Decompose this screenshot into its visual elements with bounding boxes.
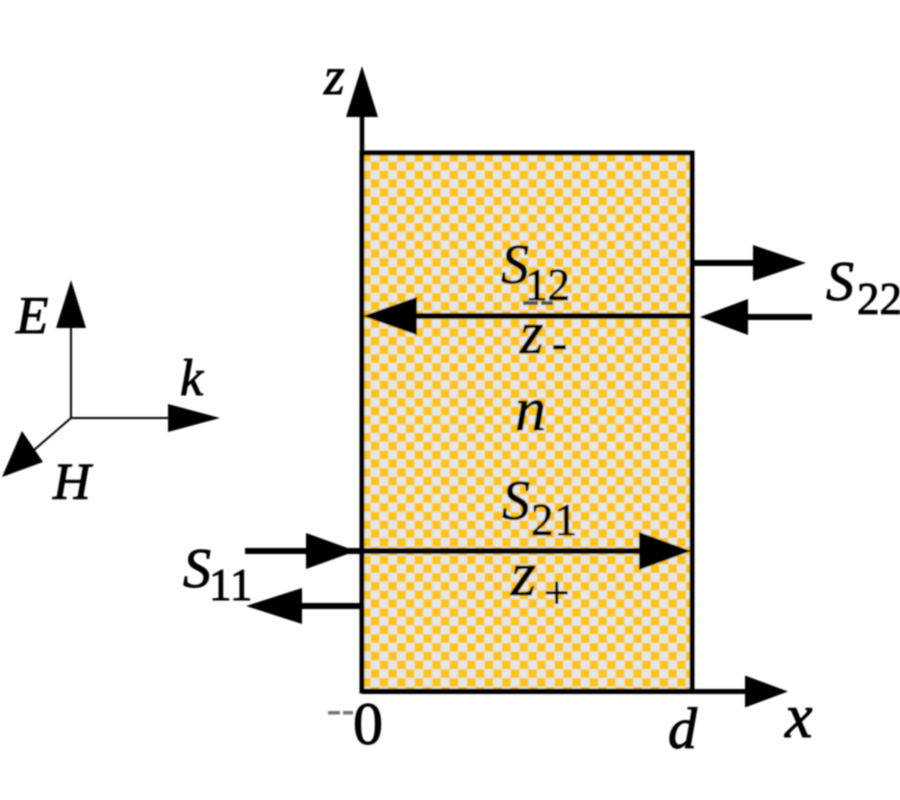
svg-text:+: + bbox=[544, 568, 569, 618]
svg-text:0: 0 bbox=[353, 691, 383, 757]
svg-text:21: 21 bbox=[531, 495, 578, 545]
svg-text:d: d bbox=[668, 696, 698, 761]
svg-text:z: z bbox=[510, 538, 536, 609]
svg-text:11: 11 bbox=[209, 560, 252, 610]
svg-text:S: S bbox=[826, 251, 854, 313]
svg-text:z: z bbox=[519, 300, 543, 366]
svg-text:n: n bbox=[515, 376, 546, 444]
svg-text:H: H bbox=[52, 454, 93, 511]
svg-text:x: x bbox=[784, 683, 813, 751]
svg-text:z: z bbox=[323, 48, 345, 106]
svg-text:22: 22 bbox=[857, 274, 900, 324]
svg-text:S: S bbox=[502, 470, 530, 532]
svg-text:-: - bbox=[552, 318, 567, 368]
svg-text:k: k bbox=[180, 350, 204, 407]
svg-text:E: E bbox=[15, 287, 48, 345]
svg-text:S: S bbox=[183, 538, 211, 600]
